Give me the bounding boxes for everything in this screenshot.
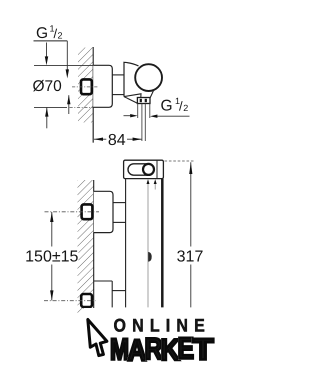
svg-text:Ø70: Ø70 bbox=[33, 78, 63, 95]
svg-text:G: G bbox=[36, 25, 48, 42]
svg-text:G: G bbox=[161, 97, 173, 114]
svg-text:150±15: 150±15 bbox=[25, 249, 78, 266]
svg-text:M: M bbox=[110, 334, 129, 367]
svg-text:2: 2 bbox=[183, 103, 188, 113]
svg-text:2: 2 bbox=[58, 31, 63, 41]
svg-text:84: 84 bbox=[108, 132, 126, 149]
svg-text:317: 317 bbox=[177, 249, 204, 266]
svg-text:T: T bbox=[193, 334, 214, 367]
